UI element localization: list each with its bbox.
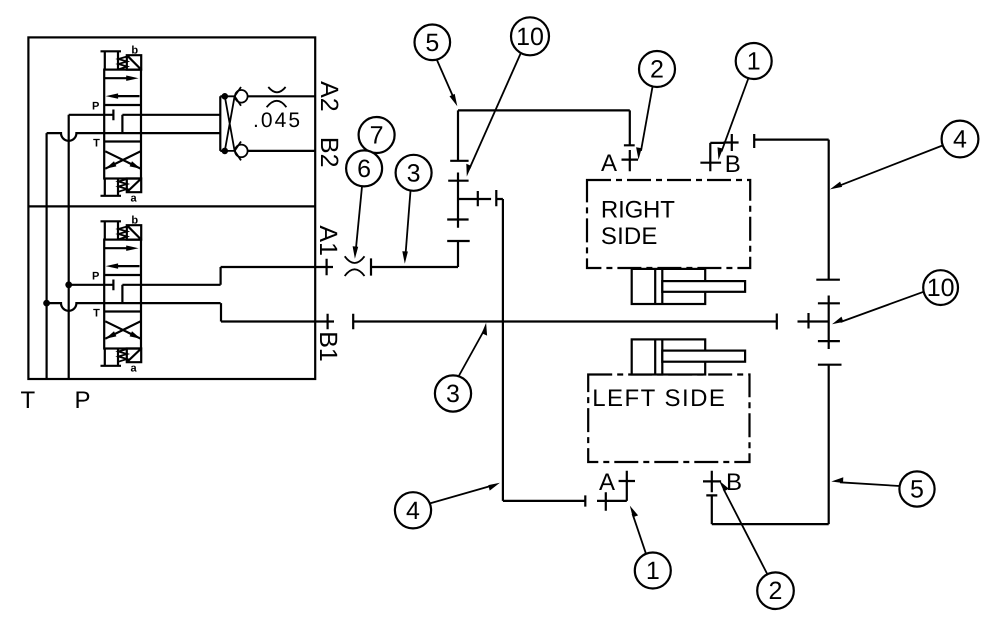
svg-text:3: 3 xyxy=(446,380,460,408)
svg-text:3: 3 xyxy=(407,159,421,187)
svg-text:A: A xyxy=(601,150,617,177)
svg-text:B: B xyxy=(726,469,742,496)
svg-text:A: A xyxy=(599,469,615,496)
svg-text:SIDE: SIDE xyxy=(601,223,658,250)
svg-text:T: T xyxy=(21,387,36,414)
svg-text:A1: A1 xyxy=(314,225,342,256)
svg-text:10: 10 xyxy=(927,274,955,302)
svg-text:6: 6 xyxy=(357,155,371,183)
svg-text:RIGHT: RIGHT xyxy=(601,197,675,224)
svg-text:4: 4 xyxy=(406,497,420,525)
svg-text:B2: B2 xyxy=(315,137,343,168)
svg-text:.045: .045 xyxy=(253,109,300,132)
svg-text:LEFT SIDE: LEFT SIDE xyxy=(592,385,725,412)
svg-text:2: 2 xyxy=(769,577,783,605)
svg-text:B: B xyxy=(725,151,741,178)
svg-text:10: 10 xyxy=(516,23,544,51)
svg-text:2: 2 xyxy=(650,56,664,84)
svg-text:B1: B1 xyxy=(314,331,342,362)
svg-text:4: 4 xyxy=(953,126,967,154)
svg-text:5: 5 xyxy=(425,29,439,57)
svg-text:P: P xyxy=(75,387,91,414)
svg-text:A2: A2 xyxy=(315,81,343,112)
svg-text:1: 1 xyxy=(646,557,660,585)
svg-text:7: 7 xyxy=(370,122,384,150)
svg-text:1: 1 xyxy=(747,48,761,76)
svg-text:5: 5 xyxy=(910,476,924,504)
